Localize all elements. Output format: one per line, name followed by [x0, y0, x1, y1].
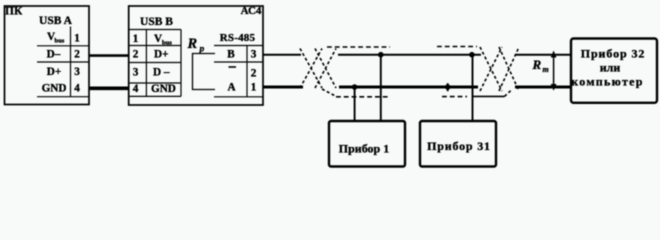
svg-text:4: 4: [133, 83, 139, 95]
svg-text:1: 1: [133, 33, 139, 45]
svg-text:1: 1: [251, 82, 257, 94]
svg-text:т: т: [543, 65, 549, 74]
svg-text:Прибор 32: Прибор 32: [581, 47, 646, 61]
svg-text:RS-485: RS-485: [220, 32, 256, 44]
svg-text:3: 3: [133, 67, 139, 79]
svg-text:А: А: [227, 82, 235, 94]
svg-text:GND: GND: [151, 83, 176, 95]
svg-text:D+: D+: [47, 66, 61, 78]
svg-text:V: V: [154, 33, 162, 45]
svg-text:D–: D–: [47, 49, 61, 61]
svg-text:bus: bus: [55, 38, 65, 45]
svg-text:R: R: [187, 36, 198, 52]
svg-text:АС4: АС4: [241, 5, 262, 17]
svg-text:GND: GND: [42, 83, 67, 95]
svg-text:3: 3: [74, 66, 80, 78]
svg-text:компьютер: компьютер: [571, 75, 644, 89]
svg-text:USB A: USB A: [39, 15, 73, 27]
svg-text:Прибор 31: Прибор 31: [427, 139, 491, 153]
svg-text:2: 2: [133, 49, 139, 61]
svg-text:В: В: [227, 49, 235, 61]
svg-text:USB B: USB B: [140, 16, 173, 28]
svg-text:или: или: [600, 61, 621, 75]
svg-text:р: р: [199, 45, 205, 55]
svg-text:3: 3: [251, 49, 257, 61]
svg-text:ПК: ПК: [5, 6, 23, 18]
svg-text:D+: D+: [154, 49, 168, 61]
svg-text:R: R: [532, 57, 542, 72]
svg-text:2: 2: [251, 68, 257, 80]
svg-text:Прибор 1: Прибор 1: [339, 142, 389, 156]
svg-text:4: 4: [74, 83, 80, 95]
svg-text:2: 2: [74, 49, 80, 61]
svg-text:D –: D –: [153, 67, 170, 79]
svg-text:bus: bus: [162, 40, 172, 47]
svg-text:1: 1: [74, 33, 80, 45]
